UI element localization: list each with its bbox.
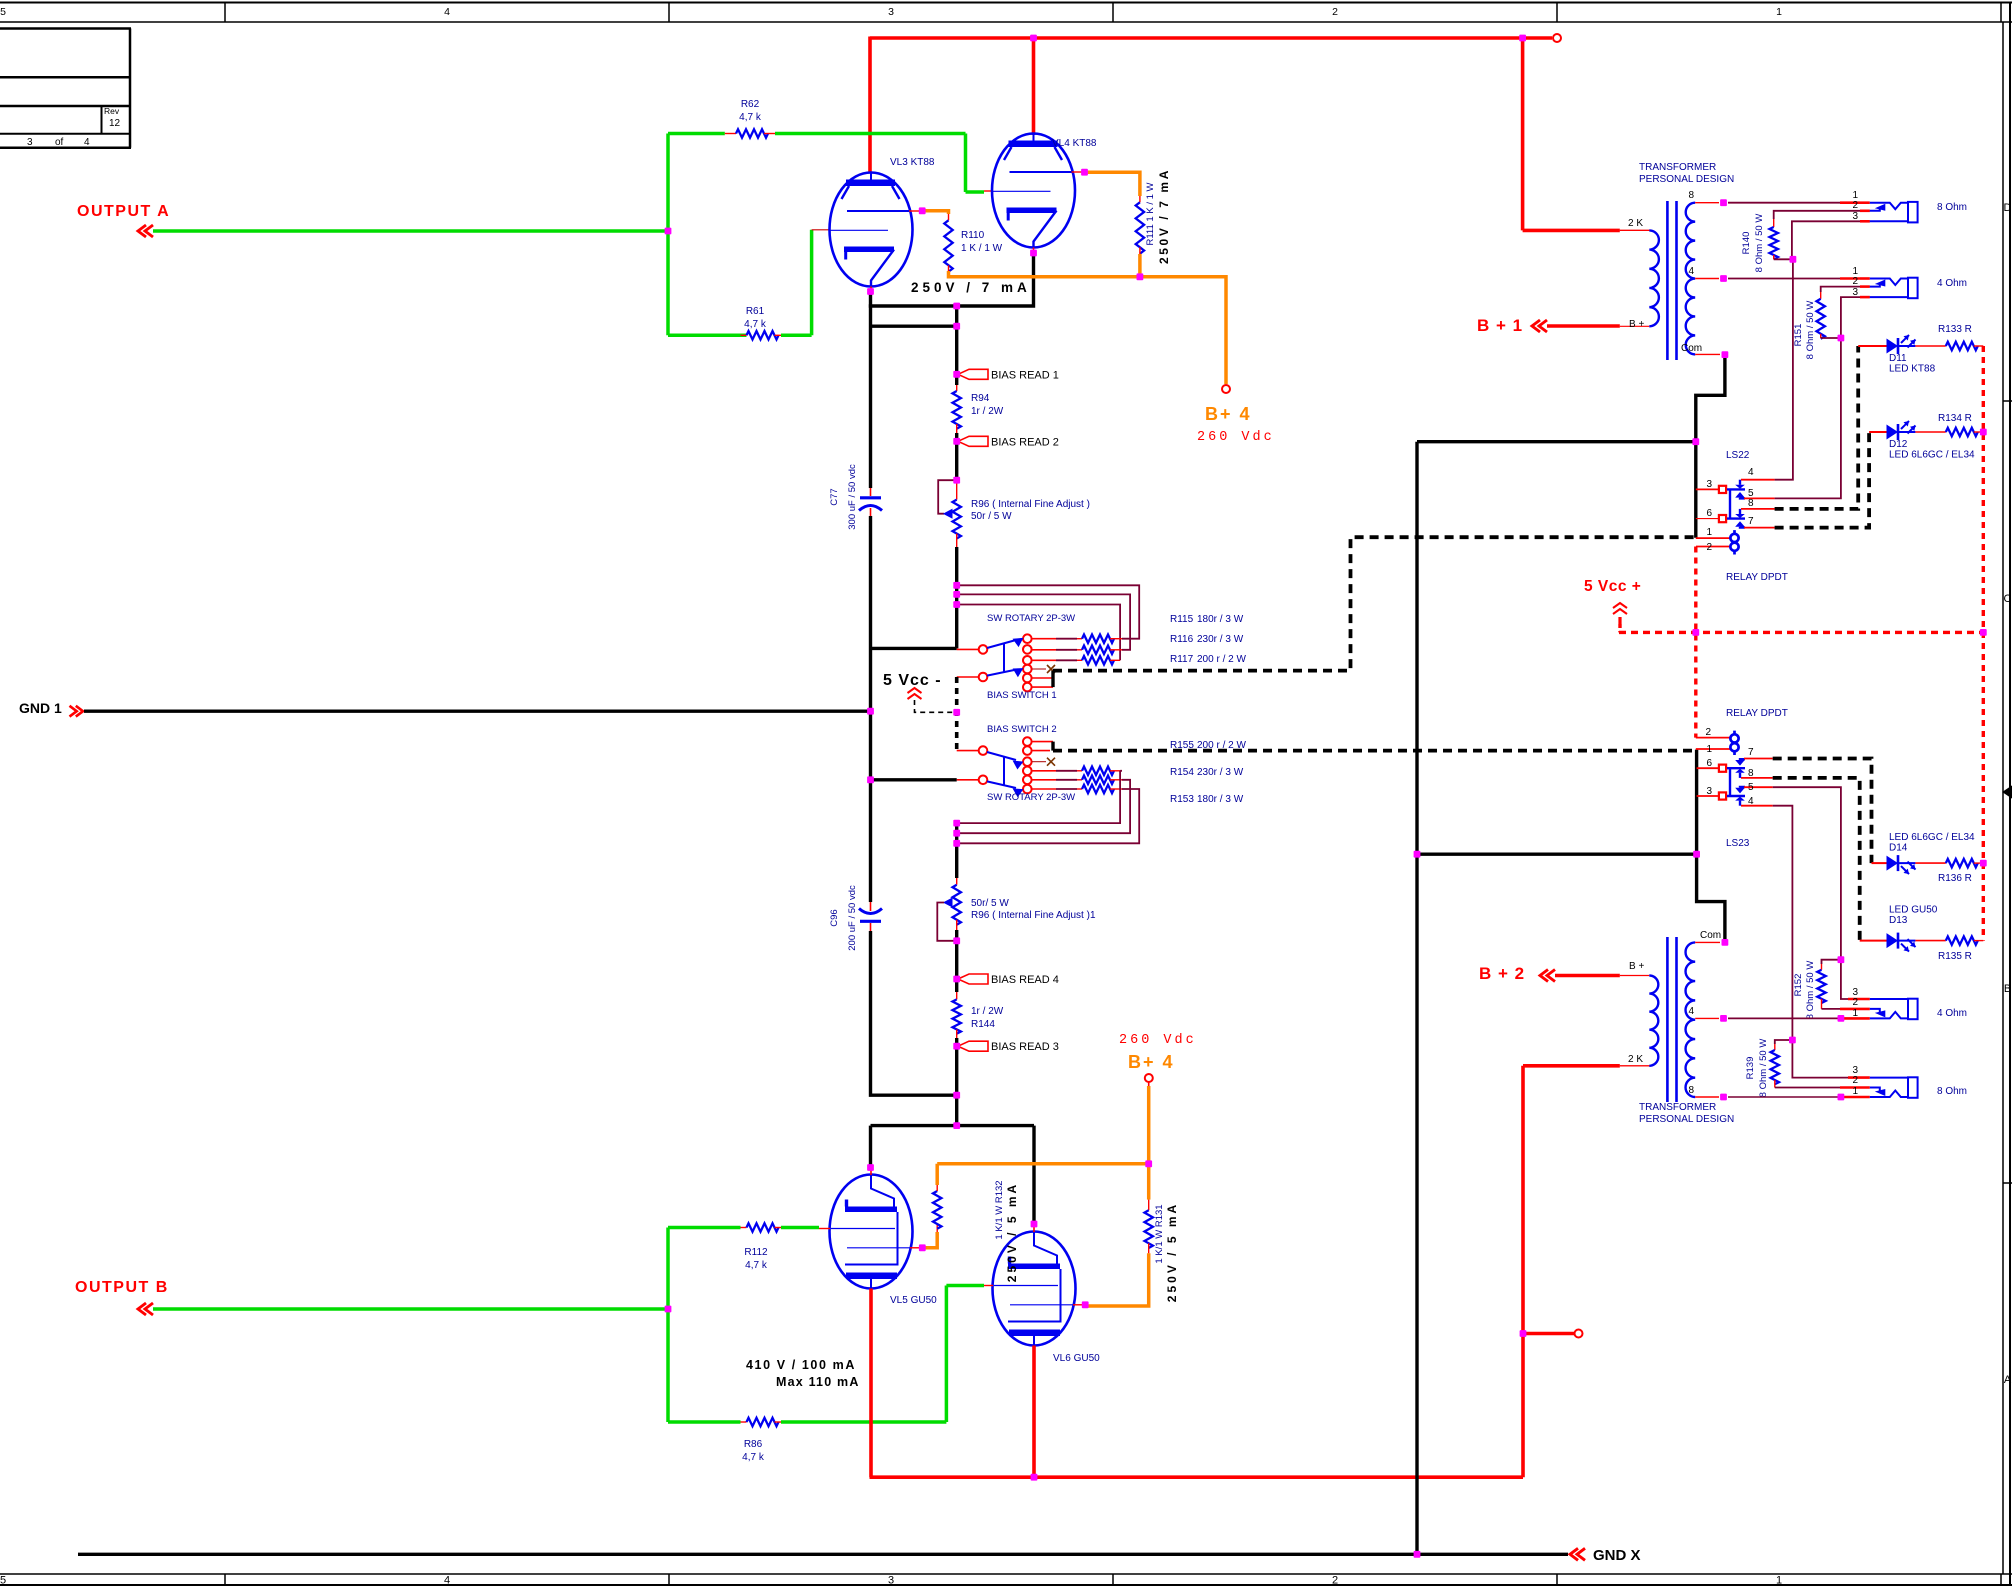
svg-text:260 Vdc: 260 Vdc [1119,1033,1197,1048]
svg-text:R155: R155 [1170,740,1194,751]
svg-text:2: 2 [1852,1075,1858,1086]
svg-text:BIAS READ 2: BIAS READ 2 [991,436,1059,448]
wire black lower bias chain [955,823,958,878]
wire contacts 5-6 to bias dash 1 [1032,677,1053,679]
svg-text:8: 8 [1748,498,1754,509]
wire maroon R115 wrap [957,585,1139,638]
svg-text:R61: R61 [746,306,765,317]
wire orange R110 to B+4 bus [949,271,1227,384]
wire orange to B+4 bottom terminal [1147,1086,1151,1164]
transformer T1 primary winding [1649,230,1659,326]
bias probe BIAS READ 1 [958,369,988,379]
svg-text:5 Vcc -: 5 Vcc - [883,672,942,689]
svg-text:SW ROTARY 2P-3W: SW ROTARY 2P-3W [987,792,1075,803]
arrow 5 Vcc minus [908,688,922,693]
svg-text:R135 R: R135 R [1938,951,1972,962]
resistor R116 [1082,646,1114,654]
terminal open circle bottom [1575,1330,1583,1338]
pin VL4 cathode [1033,248,1035,254]
wire orange VL5 screen to R132 [922,1232,937,1248]
wire grid stub VL4 [984,190,992,192]
transformer T2 tap 8 [1695,1096,1719,1098]
relay LS22 pin 3 pole [1696,488,1718,490]
wire red 2K tap bottom transformer [1523,1064,1620,1068]
svg-text:PERSONAL DESIGN: PERSONAL DESIGN [1639,1114,1734,1125]
wire dashed red 5Vcc+ bus [1619,631,1983,634]
arrow B+2 [1540,970,1548,982]
pin VL6 screen [1073,1304,1084,1306]
wire black to R96 [955,441,958,480]
svg-text:2: 2 [1332,1575,1338,1587]
svg-text:R62: R62 [741,99,760,110]
svg-text:R139: R139 [1745,1057,1756,1080]
resistor R131 [1148,1200,1150,1211]
pin VL6 grid stub [984,1285,993,1287]
LED D12 LED 6L6GC / EL34 [1869,431,1886,433]
svg-text:1 K/1 W R132: 1 K/1 W R132 [994,1180,1005,1239]
svg-text:200 r / 2 W: 200 r / 2 W [1197,654,1246,665]
wire orange R131 to VL6 screen [1085,1253,1149,1306]
svg-text:7: 7 [1748,747,1754,758]
wire contacts 1-2 to bias dash 2 [1032,741,1053,743]
wire black C96 to bottom junction [871,931,957,1095]
wire red 2K tap top transformer [1523,229,1620,233]
svg-text:R116: R116 [1170,634,1194,645]
resistor R98 (Internal Fine Adjust)1 [956,878,958,885]
arrow 5 Vcc plus [1613,603,1627,608]
wire green R86 to VL6 grid [781,1420,946,1424]
svg-text:R117: R117 [1170,654,1194,665]
relay LS23 pin 5 [1744,786,1773,788]
svg-text:OUTPUT B: OUTPUT B [75,1279,169,1296]
wire black T1 Com to LS22 [1696,355,1725,538]
svg-text:Com: Com [1700,930,1721,941]
svg-text:260 Vdc: 260 Vdc [1197,430,1275,445]
svg-text:2: 2 [1706,542,1712,553]
svg-text:LED 6L6GC / EL34: LED 6L6GC / EL34 [1889,832,1975,843]
resistor R140 [1773,219,1775,227]
svg-text:D12: D12 [1889,439,1908,450]
svg-text:Max 110 mA: Max 110 mA [776,1375,860,1389]
tube VL3 KT88 [830,173,913,287]
wire green to R112 [668,1226,741,1230]
svg-text:8: 8 [1688,190,1694,201]
wire black LS22 common link [1417,440,1696,443]
wire maroon T1 tap4 to jack J2 pin1 [1728,278,1840,280]
transformer T2 primary winding [1649,976,1658,1066]
svg-text:TRANSFORMER: TRANSFORMER [1639,1102,1716,1113]
wire red supply bus top [870,36,1552,40]
svg-text:of: of [55,137,64,148]
svg-text:230r / 3 W: 230r / 3 W [1197,634,1244,645]
wire black bottom tube bus [871,1126,1035,1224]
svg-text:8 Ohm / 50 W: 8 Ohm / 50 W [1754,214,1765,273]
svg-text:LS22: LS22 [1726,450,1750,461]
svg-text:4: 4 [1688,266,1694,277]
wire green OUTPUT B [153,1307,668,1311]
switch2 pole arrows [987,752,1016,760]
wire black VL3-VL4 cathode bus [869,292,872,489]
resistor R139 [1775,1040,1793,1044]
svg-text:4,7 k: 4,7 k [745,1260,768,1271]
wire orange VL3 screen to R110 [922,211,948,214]
svg-text:R115: R115 [1170,614,1194,625]
wire maroon T2 tap4 to J3 pin1 [1728,1017,1840,1019]
svg-text:R96 ( Internal Fine Adjust )1: R96 ( Internal Fine Adjust )1 [971,910,1096,921]
capacitor C96 [870,902,872,911]
transformer T2 secondary winding [1686,942,1696,1097]
svg-text:4,7 k: 4,7 k [742,1452,765,1463]
svg-text:C96: C96 [829,909,840,926]
svg-text:410 V / 100 mA: 410 V / 100 mA [746,1358,856,1372]
relay LS22 coil [1696,537,1730,539]
wire contact1 to R115 [1032,638,1056,640]
svg-text:BIAS READ 4: BIAS READ 4 [991,974,1059,986]
svg-text:VL5 GU50: VL5 GU50 [890,1295,937,1306]
svg-text:1r / 2W: 1r / 2W [971,406,1004,417]
svg-text:3: 3 [888,6,894,18]
wire dashed LS23 pin7 to LED D14 [1773,759,1872,864]
wire dashed LS22 pin8 to LED D11 [1775,346,1859,509]
potentiometer R96 wiper loop [938,480,957,514]
wire maroon R151 to J2 pin2 [1821,287,1870,292]
wire black LS23 common link [1417,853,1697,856]
svg-text:1 K / 1 W: 1 K / 1 W [961,243,1003,254]
svg-text:12: 12 [109,118,121,129]
wire grid stub VL3 [812,229,830,231]
transformer T2 core [1666,937,1669,1102]
resistor R117 [1082,656,1114,664]
wire black pole bar switch1 [871,647,957,650]
transformer T1 tap Com [1695,353,1720,355]
wire maroon R116 wrap [957,594,1130,649]
svg-text:B+ 4: B+ 4 [1205,404,1252,424]
svg-text:230r / 3 W: 230r / 3 W [1197,767,1244,778]
title block [0,27,131,30]
svg-text:LED KT88: LED KT88 [1889,364,1936,375]
svg-text:R94: R94 [971,393,990,404]
svg-text:200 r / 2 W: 200 r / 2 W [1197,740,1246,751]
wire contact3 to R117 [1032,659,1056,661]
no-connect X switch2 contact3 [1032,761,1046,763]
relay LS22 pin 5 [1744,497,1775,499]
svg-text:D: D [2004,202,2012,214]
svg-text:8 Ohm / 50 W: 8 Ohm / 50 W [1805,961,1816,1020]
resistor R154 [1082,776,1114,784]
svg-text:B +: B + [1629,961,1644,972]
svg-text:6: 6 [1706,758,1712,769]
svg-text:5: 5 [0,6,6,18]
pin VL5 grid stub [819,1228,830,1230]
svg-text:R151: R151 [1793,324,1804,347]
wire red to terminal [1523,1332,1574,1336]
arrow GND1 [76,706,83,717]
resistor R111 [1139,196,1141,202]
svg-text:R134 R: R134 R [1938,413,1972,424]
svg-text:3: 3 [1852,211,1858,222]
wire maroon R152 to J3 pin2 [1822,1008,1841,1010]
relay LS22 pin 6 pole [1696,518,1718,520]
wire maroon R154 wrap [957,780,1130,833]
svg-text:GND X: GND X [1593,1547,1641,1564]
transformer T1 core [1666,201,1669,360]
junction cathode bus [871,306,957,326]
wire green to R86 [668,1420,741,1424]
wire GND 1 [84,710,871,713]
svg-text:VL3 KT88: VL3 KT88 [890,157,935,168]
wire contact5 to R154 [1032,779,1056,781]
LED D11 LED KT88 [1858,345,1886,347]
wire black R96 to switch bars [955,547,958,648]
wire orange VL4 screen to R111 [1085,172,1140,196]
svg-text:LED 6L6GC / EL34: LED 6L6GC / EL34 [1889,450,1975,461]
transformer T1 tap 8 [1695,202,1719,204]
wire maroon R155 wrap [957,771,1122,823]
svg-text:8: 8 [1688,1085,1694,1096]
relay LS23 pin 8 [1741,777,1773,779]
svg-text:D11: D11 [1889,353,1907,364]
svg-text:LS23: LS23 [1726,838,1750,849]
svg-text:3: 3 [1706,479,1712,490]
svg-text:R86: R86 [744,1439,763,1450]
svg-text:C77: C77 [829,488,840,505]
wire black main return column [1415,442,1418,1555]
svg-text:D13: D13 [1889,915,1908,926]
svg-text:D14: D14 [1889,843,1908,854]
pin VL4 screen grid [1072,171,1084,173]
wire black bias chain upper [955,326,958,374]
svg-text:R96 ( Internal Fine Adjust ): R96 ( Internal Fine Adjust ) [971,499,1090,510]
svg-text:7: 7 [1748,516,1754,527]
resistor R86 [741,1421,747,1423]
wire dashed red relay coils feed [1694,547,1697,738]
svg-text:GND 1: GND 1 [19,700,62,716]
bias probe BIAS READ 3 [955,1038,958,1046]
wire orange R131 chain [1147,1164,1151,1200]
no-connect X switch1 contact4 [1032,668,1046,670]
junction dots layer [665,35,1987,1558]
tube VL4 KT88 [992,134,1075,248]
resistor R110 [948,214,950,220]
svg-text:BIAS READ 3: BIAS READ 3 [991,1041,1059,1053]
svg-text:LED GU50: LED GU50 [1889,905,1938,916]
resistor R153 [1082,785,1114,793]
svg-text:250V / 5 mA: 250V / 5 mA [1165,1202,1179,1302]
wire dashed LS22 pin7 to LED D12 [1775,432,1870,528]
wire green to R62 [668,132,725,136]
svg-text:4 Ohm: 4 Ohm [1937,278,1967,289]
wire black pole bar switch2 [871,778,957,781]
switch1 pole arrows [987,640,1016,648]
relay LS23 pin 3 pole [1697,795,1718,797]
arrow GND X [1570,1548,1578,1560]
wire green R112 to VL5 grid [781,1226,819,1230]
svg-text:1: 1 [1776,1575,1782,1587]
svg-text:BIAS SWITCH 2: BIAS SWITCH 2 [987,724,1057,735]
sheet border frame [0,2,2012,4]
svg-text:180r / 3 W: 180r / 3 W [1197,614,1244,625]
border centerline arrow marker [2003,786,2012,798]
wire maroon J4 pin3 column [1792,1040,1848,1078]
wire dashed LS23 pin8 to LED D13 [1773,778,1860,941]
svg-text:5: 5 [0,1575,6,1587]
resistor R132 [936,1224,938,1232]
wire contact4 to R155 [1032,770,1056,772]
resistor R135 [1946,936,1978,944]
svg-text:4: 4 [444,1575,450,1587]
svg-text:OUTPUT A: OUTPUT A [77,203,170,220]
transformer T2 tap 4 [1695,1017,1719,1019]
svg-text:2: 2 [1852,276,1858,287]
transformer T1 tap 4 [1695,278,1719,280]
resistor R115 [1082,635,1114,643]
relay LS23 pin 4 [1741,805,1773,807]
wire maroon LS22 pin5 to R151 junction [1775,338,1841,498]
wire contact6 to R153 [1032,788,1056,790]
relay LS23 pin 7 [1744,758,1773,760]
wire red B+1 [1547,324,1620,328]
resistor R136 [1946,859,1978,867]
tube VL6 GU50 [993,1232,1076,1346]
wire black T2 Com to LS23 [1697,750,1725,943]
svg-text:4,7 k: 4,7 k [744,319,767,330]
relay LS23 pin 6 pole [1697,767,1718,769]
svg-text:250V / 7 mA: 250V / 7 mA [911,280,1031,295]
svg-text:Rev: Rev [104,106,120,116]
svg-text:SW ROTARY 2P-3W: SW ROTARY 2P-3W [987,613,1075,624]
wire green R61 up to VL3 grid [781,334,812,338]
wire red VL6 cathode [1032,1346,1036,1478]
resistor R144 [955,979,958,992]
svg-text:RELAY DPDT: RELAY DPDT [1726,572,1788,583]
svg-text:180r / 3 W: 180r / 3 W [1197,794,1244,805]
resistor R62 [725,133,736,135]
svg-text:8 Ohm / 50 W: 8 Ohm / 50 W [1805,301,1816,360]
svg-text:1: 1 [1776,6,1782,18]
wire maroon LS22 pin4 to R140 junction [1775,259,1793,479]
bias probe BIAS READ 4 [958,974,988,984]
resistor R61 [741,334,747,336]
wire green to R61 [668,334,747,338]
svg-text:6: 6 [1706,508,1712,519]
svg-text:R144: R144 [971,1019,995,1030]
svg-text:C: C [2004,593,2012,605]
wire dashed bias column [955,677,959,751]
resistor R155 [1082,767,1114,775]
wire dashed red LED return column [1982,346,1985,941]
svg-text:2: 2 [1852,997,1858,1008]
arrow B+1 [1532,320,1540,332]
wire maroon LS23 pin4 to R139 [1773,806,1793,1040]
svg-text:4: 4 [444,6,450,18]
svg-text:RELAY DPDT: RELAY DPDT [1726,708,1788,719]
wire dashed 5Vcc- stub [915,700,957,712]
svg-text:R136 R: R136 R [1938,873,1972,884]
svg-text:B + 2: B + 2 [1479,964,1525,983]
svg-text:3: 3 [27,137,33,148]
pin VL5 anode [870,1168,872,1176]
svg-text:2: 2 [1852,200,1858,211]
wire maroon T2 tap8 to J4 pin1 [1728,1096,1840,1098]
svg-text:2: 2 [1332,6,1338,18]
relay LS23 contact arms [1729,768,1731,796]
svg-text:3: 3 [1852,287,1858,298]
svg-text:VL4 KT88: VL4 KT88 [1052,138,1097,149]
svg-text:5 Vcc +: 5 Vcc + [1584,578,1641,595]
svg-text:R152: R152 [1793,974,1804,997]
svg-text:4: 4 [1748,796,1754,807]
pin VL6 anode [1033,1224,1035,1232]
svg-text:4,7 k: 4,7 k [739,112,762,123]
wire maroon R152 jack J3 pin3 [1841,960,1848,999]
svg-text:8: 8 [1748,768,1754,779]
terminal B+4 bottom [1145,1074,1153,1082]
wire orange R132 to B+4 bottom bus [937,1164,1148,1185]
svg-text:2 K: 2 K [1628,1054,1643,1065]
svg-text:BIAS READ 1: BIAS READ 1 [991,369,1059,381]
resistor R112 [741,1227,747,1229]
wire maroon T1 tap8 to jack J1 pin1 [1728,202,1840,204]
wire green feedback column bottom [666,1228,670,1423]
svg-text:1: 1 [1706,527,1712,538]
resistor R152 [1822,960,1841,964]
relay LS22 pin 8 [1741,508,1775,510]
svg-text:1: 1 [1852,1008,1858,1019]
wire dashed bias switch2 to relay LS23 coil [1053,749,1696,753]
wire black to BIAS READ 4 [955,930,958,979]
arrow OUTPUT B [138,1303,146,1315]
svg-text:R110: R110 [961,230,985,241]
svg-text:R133 R: R133 R [1938,324,1972,335]
wire maroon LS23 pin5 to R152 [1773,787,1841,960]
svg-text:4: 4 [84,137,90,148]
relay LS22 pin 4 [1741,479,1775,481]
svg-text:200 uF / 50 vdc: 200 uF / 50 vdc [847,885,858,951]
wire green feedback column left [666,134,670,336]
terminal open circle top right [1553,34,1561,42]
svg-text:5: 5 [1748,782,1754,793]
svg-text:300 uF / 50 vdc: 300 uF / 50 vdc [847,464,858,530]
svg-text:2 K: 2 K [1628,218,1643,229]
svg-text:TRANSFORMER: TRANSFORMER [1639,162,1716,173]
resistor R96 (Internal Fine Adjust) [956,480,958,488]
terminal B+4 top [1222,385,1230,393]
svg-text:4 Ohm: 4 Ohm [1937,1008,1967,1019]
wire contact2 to R116 [1032,649,1056,651]
svg-text:1: 1 [1706,744,1712,755]
wire red VL5 cathode [869,1289,873,1478]
relay LS22 pin 7 [1744,527,1775,529]
capacitor C77 [870,488,872,496]
wire GND X bus [78,1553,1568,1556]
svg-text:B +: B + [1629,319,1644,330]
pin VL3 screen grid [909,210,921,212]
svg-text:4: 4 [1748,467,1754,478]
transformer T1 secondary winding [1686,203,1695,355]
svg-text:1r / 2W: 1r / 2W [971,1006,1004,1017]
svg-text:A: A [2004,1374,2012,1386]
svg-text:50r/ 5 W: 50r/ 5 W [971,898,1009,909]
wire maroon R117 wrap [957,605,1120,661]
wire red B+2 [1555,974,1620,978]
resistor R151 [1820,292,1822,299]
svg-text:50r / 5 W: 50r / 5 W [971,511,1012,522]
svg-text:VL6 GU50: VL6 GU50 [1053,1353,1100,1364]
svg-text:250V / 5 mA: 250V / 5 mA [1005,1182,1019,1282]
wire green OUTPUT A [153,229,668,233]
svg-text:R154: R154 [1170,767,1194,778]
tube VL5 GU50 [830,1175,913,1289]
